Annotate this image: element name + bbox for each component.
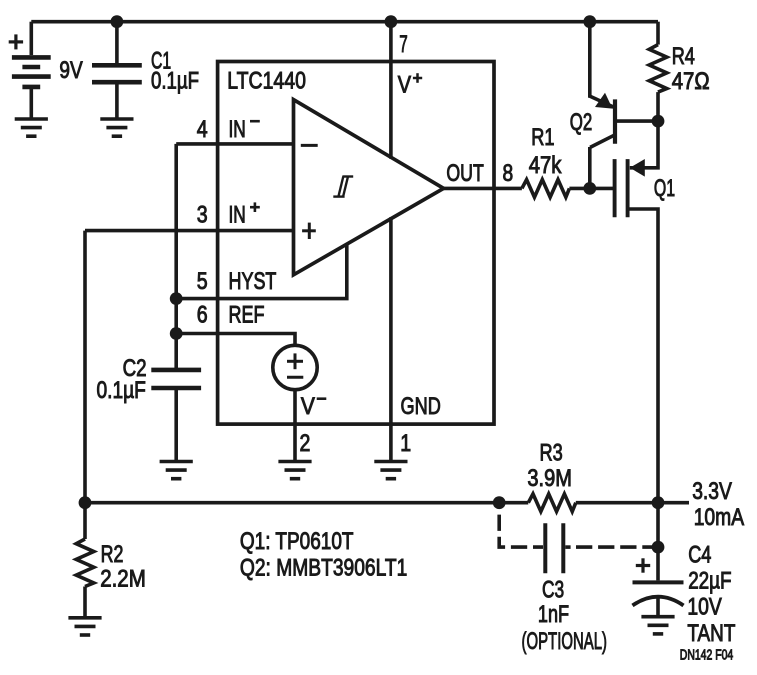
svg-text:3.9M: 3.9M [527,465,572,492]
wire pin4 IN- lead [176,142,293,146]
wire R4 to node [656,92,660,121]
wire OUT lead [444,187,522,191]
label pin 2 [300,430,311,457]
svg-text:47Ω: 47Ω [672,68,710,95]
svg-text:3: 3 [197,201,208,228]
comparator plus input mark [302,223,316,239]
svg-text:TANT: TANT [687,620,735,647]
svg-text:10mA: 10mA [694,504,744,531]
wire 3.3V node to C4 [656,503,660,581]
wire R4 branch top [656,22,660,45]
label 9V [59,57,82,84]
svg-text:3.3V: 3.3V [692,478,732,505]
node 3.3V output [652,496,665,509]
svg-text:IN: IN [229,201,246,228]
wire dashed C3 branch right [565,545,658,549]
wire R1 to Q1 gate [569,187,614,191]
svg-text:Q2: Q2 [570,109,593,136]
wire pin5 HYST lead [176,244,347,299]
ground (C4) [641,617,674,634]
svg-text:R2: R2 [101,541,124,568]
svg-text:OUT: OUT [446,160,484,187]
ground (C2) [160,462,193,479]
svg-text:LTC1440: LTC1440 [227,68,306,95]
label pin 7 [399,31,408,58]
wire pin6 REF lead [176,334,295,346]
svg-text:GND: GND [401,393,441,420]
label DN142 F04 [680,648,733,664]
svg-text:2: 2 [300,430,311,457]
svg-text:V: V [301,393,315,420]
label C1 value 0.1uF [151,48,199,95]
comparator minus input mark [301,144,318,147]
label OUT [446,160,484,187]
svg-text:7: 7 [399,31,408,58]
voltage reference source V- [273,345,317,389]
label transistor types [240,528,407,581]
svg-text:10V: 10V [687,593,721,620]
svg-text:0.1µF: 0.1µF [97,377,146,404]
node junction R3/C3 [493,496,506,509]
wire bottom rail left [83,231,87,503]
svg-text:22µF: 22µF [688,568,731,595]
label V+ [398,71,423,98]
svg-text:4: 4 [197,116,208,143]
comparator triangle U1 [294,100,444,275]
wire Q2 emitter branch [588,22,592,98]
node junction bottom-left [79,496,92,509]
resistor R3 [528,494,576,512]
label Q1 [654,175,675,202]
wire pin3 IN+ lead [85,229,294,233]
label R1 value 47k [529,124,563,179]
svg-text:IN: IN [229,116,246,143]
svg-text:C4: C4 [688,541,711,568]
node junction OUT/Q2 collector [583,182,596,195]
node junction top rail / pin7 [385,15,398,28]
label IN+ [229,201,260,228]
svg-text:47k: 47k [529,152,563,179]
capacitor C2 [151,370,201,462]
svg-text:1nF: 1nF [538,601,569,628]
label C3 value 1nF OPTIONAL [522,577,608,656]
svg-text:V: V [398,71,411,98]
transistor Q2 (PNP) [590,93,658,189]
label pin 1 [400,430,411,457]
wire dashed C3 branch left [499,515,543,548]
label pin 3 [197,201,208,228]
svg-text:R4: R4 [672,43,695,70]
wire IN- vertical to HYST/REF/C2 [174,144,178,370]
wire bottom rail right [576,501,689,505]
svg-text:0.1µF: 0.1µF [151,67,199,94]
resistor R1 [522,180,570,198]
svg-text:6: 6 [197,302,208,329]
ground (C1) [100,119,133,136]
capacitor C3 (optional) [545,523,563,573]
label C2 value 0.1uF [97,355,147,404]
IC U1 LTC1440 outline box [218,62,494,425]
wire C1 branch [115,22,119,63]
wire pin7 V+ lead [389,22,393,159]
svg-text:2.2M: 2.2M [100,566,146,593]
wire bottom rail [85,501,528,505]
wire pin2 V- lead [293,390,297,462]
node junction R4/Q2 base/Q1 source [652,115,665,128]
svg-text:REF: REF [229,302,265,329]
label R4 value 47ohm [672,43,710,95]
svg-text:Q1: Q1 [654,175,675,202]
svg-text:5: 5 [197,268,208,295]
ground (pin1) [374,462,407,479]
svg-text:(OPTIONAL): (OPTIONAL) [522,628,608,655]
svg-text:C3: C3 [542,577,564,604]
svg-text:DN142 F04: DN142 F04 [680,648,733,664]
label HYST [229,268,277,295]
label pin 6 [197,302,208,329]
wire pin1 GND lead [389,217,393,461]
label LTC1440 [227,68,306,95]
label 3.3V 10mA [692,478,744,531]
label Q2 [570,109,593,136]
resistor R4 [649,45,667,93]
svg-text:HYST: HYST [229,268,277,295]
label IN- [229,116,260,143]
svg-text:R1: R1 [531,124,554,151]
label pin 8 [503,160,514,187]
label GND [401,393,441,420]
svg-text:1: 1 [400,430,411,457]
capacitor C4 polarity mark [636,558,650,572]
label V- [301,393,326,420]
svg-text:9V: 9V [59,57,82,84]
hysteresis symbol [333,177,353,197]
label REF [229,302,265,329]
node junction REF [170,327,183,340]
capacitor C1 [92,65,142,119]
node junction top rail / C1 [111,15,124,28]
resistor R2 [76,503,94,618]
svg-text:R3: R3 [540,440,563,467]
capacitor C4 (polarized) [633,582,684,616]
node junction HYST [170,292,183,305]
wire top supply rail [31,20,658,24]
battery BT1 9V [12,22,51,119]
svg-text:8: 8 [503,160,514,187]
transistor Q1 (P-MOSFET) [615,121,658,503]
node junction C3/C4 [652,541,665,554]
label R2 value 2.2M [100,541,146,593]
label pin 5 [197,268,208,295]
label C4 values [687,541,735,646]
svg-text:Q2: MMBT3906LT1: Q2: MMBT3906LT1 [240,554,407,581]
node junction top rail / Q2 [583,15,596,28]
label pin 4 [197,116,208,143]
ground (battery) [15,119,48,136]
svg-text:Q1: TP0610T: Q1: TP0610T [240,528,354,555]
label R3 value 3.9M [527,440,572,492]
ground (R2) [68,618,101,635]
ground (pin2) [278,462,311,479]
battery plus polarity mark [9,34,23,49]
